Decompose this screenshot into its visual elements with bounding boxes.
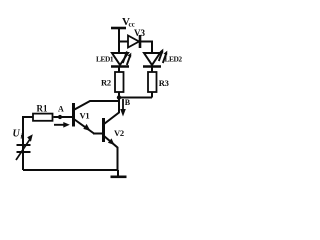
resistor R2 [115, 72, 124, 92]
svg-text:B: B [125, 98, 131, 107]
resistor R1 [33, 114, 53, 121]
source Ui bars [17, 144, 31, 146]
ground [117, 170, 119, 177]
label Vcc [122, 16, 135, 29]
svg-text:i: i [21, 133, 23, 141]
wire LED2 to R3 [151, 67, 153, 73]
svg-text:A: A [58, 105, 64, 114]
LED2 emission arrows [159, 51, 167, 63]
svg-text:LED2: LED2 [165, 55, 183, 64]
Vcc power rail bar [111, 27, 126, 30]
transistor V1 emitter [75, 120, 95, 134]
wire junction horizontal [119, 97, 152, 99]
wire junction to V2 collector [104, 98, 119, 125]
transistor V2 [102, 118, 105, 142]
junction dot node B [117, 95, 121, 99]
wire Vcc to LED1 [118, 28, 120, 53]
resistor R3 [148, 72, 157, 92]
source Ui variable arrow [16, 139, 30, 160]
svg-text:R2: R2 [101, 78, 111, 88]
label Ui [13, 129, 23, 141]
wire LED1 to R2 [118, 67, 120, 73]
transistor V2 emitter [104, 136, 118, 170]
wire V1 emitter to V2 base [93, 133, 104, 135]
LED1 emission arrows [123, 53, 131, 65]
svg-text:U: U [13, 129, 21, 140]
arrow node B current [122, 99, 124, 111]
wire R3 to junction [151, 92, 153, 98]
V1 emitter arrowhead [83, 124, 90, 131]
V2 emitter arrowhead [108, 138, 115, 145]
wire Vcc branch to V3 [119, 41, 128, 43]
wire input left vertical [23, 117, 33, 170]
wire bottom rail [23, 169, 118, 171]
svg-text:R3: R3 [159, 78, 169, 88]
LED2 [144, 53, 160, 65]
wire V1 base [54, 116, 74, 118]
arrow into V1 base [54, 124, 65, 126]
wire R2 to node B junction [118, 92, 120, 98]
diode V3 [128, 36, 139, 48]
svg-text:LED1: LED1 [96, 55, 114, 64]
Ui arrowhead [27, 134, 33, 141]
LED1 cathode bar [111, 65, 129, 68]
transistor V1 [72, 103, 75, 127]
node A dot [58, 115, 62, 119]
svg-text:R1: R1 [37, 104, 48, 114]
svg-text:V2: V2 [114, 128, 124, 138]
svg-text:V3: V3 [134, 28, 145, 38]
LED1 [112, 53, 128, 65]
wire V1 collector [75, 101, 120, 110]
LED2 cathode bar [143, 65, 161, 68]
wire V3 to LED2 branch [140, 42, 152, 54]
diode V3 cathode bar [139, 35, 142, 48]
svg-text:V1: V1 [80, 111, 90, 121]
